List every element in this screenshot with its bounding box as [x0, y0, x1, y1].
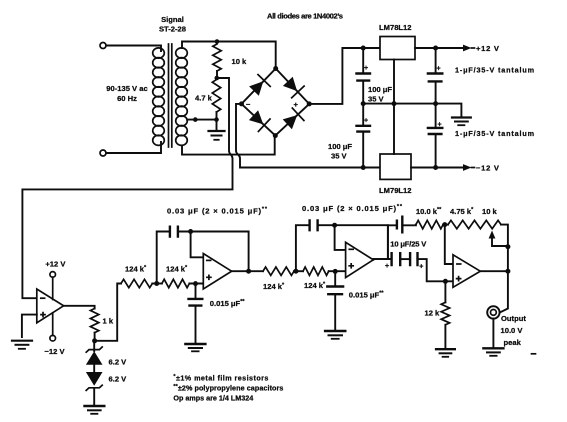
- svg-text:+: +: [364, 65, 368, 72]
- node U4 output: [505, 269, 510, 274]
- resistor 124k #1: [121, 279, 152, 287]
- wire middle ground rail: [363, 104, 461, 117]
- wire node 10.0k to U4 inverting: [445, 225, 453, 264]
- wire secondary top to bridge: [182, 42, 276, 69]
- wire node A: [152, 283, 162, 285]
- pot wiper arrow: [489, 231, 496, 239]
- terminal U1 -supply: [50, 335, 56, 341]
- node stage1 fb: [188, 229, 193, 234]
- wire U3 output: [373, 258, 390, 261]
- svg-text:60 Hz: 60 Hz: [117, 94, 137, 103]
- op-amp U4: [453, 255, 480, 287]
- wire 1k node to 124k chain: [95, 284, 121, 341]
- wire 10k to node: [216, 71, 218, 78]
- arrow -12V: [463, 164, 472, 171]
- transformer T1 core: [169, 44, 172, 147]
- wire jack to ground: [492, 319, 494, 347]
- svg-text:1-μF/35-V tantalum: 1-μF/35-V tantalum: [455, 66, 534, 75]
- svg-text:0.015 μF**: 0.015 μF**: [349, 291, 385, 300]
- transformer T1 secondary winding: [176, 48, 188, 145]
- svg-text:All diodes are 1N4002’s: All diodes are 1N4002’s: [267, 12, 343, 21]
- svg-text:6.2 V: 6.2 V: [109, 358, 128, 367]
- wire to U2 inverting input: [191, 232, 204, 258]
- svg-text:**±2% polypropylene capacitors: **±2% polypropylene capacitors: [173, 384, 283, 393]
- svg-text:−: −: [246, 100, 251, 109]
- label 90-135 V ac 60 Hz: [106, 84, 147, 103]
- wire 4.7k bottom / center tap: [187, 112, 217, 130]
- wire bridge plus to positive rail: [309, 48, 380, 104]
- svg-text:+: +: [385, 263, 389, 270]
- wire to U3 inverting input: [335, 225, 346, 250]
- svg-text:1 k: 1 k: [103, 317, 114, 326]
- svg-text:+12 V: +12 V: [45, 260, 66, 269]
- svg-text:−12 V: −12 V: [44, 347, 65, 356]
- ground at 4.7k: [209, 131, 225, 140]
- svg-text:0.03 μF (2 × 0.015 μF)**: 0.03 μF (2 × 0.015 μF)**: [302, 204, 403, 213]
- wire node B to op-amp U2: [189, 283, 203, 285]
- capacitor 0.015uF stage1: [187, 284, 245, 343]
- diode D1 (left-top, L to T): [249, 75, 270, 96]
- node B stage2: [333, 269, 338, 274]
- svg-text:4.75 k*: 4.75 k*: [450, 207, 474, 216]
- svg-text:1-μF/35-V tantalum: 1-μF/35-V tantalum: [455, 129, 534, 138]
- wire U4 output: [480, 270, 508, 272]
- node mid rail 1uF: [433, 101, 438, 106]
- wire secondary bottom to bridge bottom: [182, 136, 275, 155]
- wire riser op3 output to top row: [388, 225, 396, 259]
- node 10.0k/4.75k: [442, 222, 447, 227]
- svg-text:124 k*: 124 k*: [166, 265, 188, 274]
- svg-text:6.2 V: 6.2 V: [109, 375, 128, 384]
- node mid rail 78L12: [392, 101, 397, 106]
- wire U1 output: [64, 306, 95, 309]
- wire output down to jack: [500, 247, 508, 313]
- svg-text:124 k*: 124 k*: [304, 281, 326, 290]
- node U4 noninverting: [443, 279, 448, 284]
- wire node A stage2: [294, 270, 303, 272]
- wire 79L12 output to -12V: [411, 167, 465, 169]
- label Signal ST-2-28: [159, 15, 186, 34]
- wire pot right end down: [501, 225, 508, 247]
- svg-text:12 k: 12 k: [425, 309, 441, 318]
- svg-text:0.015 μF**: 0.015 μF**: [210, 299, 246, 308]
- node +rail at 100uF: [361, 46, 366, 51]
- svg-text:10 k: 10 k: [232, 57, 248, 66]
- diode D3 (left-bottom, L to B): [249, 110, 270, 131]
- svg-text:*±1% metal film resistors: *±1% metal film resistors: [173, 374, 268, 383]
- node wiper join: [505, 244, 510, 249]
- zener D6 6.2V: [86, 365, 127, 391]
- resistor 12k: [444, 281, 446, 302]
- resistor 4.75k + pot 10k: [448, 220, 501, 228]
- svg-text:90-135 V ac: 90-135 V ac: [106, 84, 147, 93]
- capacitor 0.015uF stage2: [326, 271, 384, 329]
- wire cap to 10.0k: [402, 224, 416, 227]
- wire stage1 feedback right: [178, 232, 249, 272]
- scan speck: [532, 353, 536, 355]
- resistor 124k #3: [263, 267, 294, 275]
- resistor 10k (top): [213, 44, 221, 71]
- capacitor C3 1uF tantalum (top): [427, 48, 444, 104]
- svg-text:100 μF: 100 μF: [368, 85, 392, 94]
- ground at 12k: [436, 349, 455, 357]
- wire 79L12 ground stem: [393, 104, 395, 154]
- wire U1 noninverting input to ground: [22, 315, 37, 337]
- svg-text:+: +: [438, 122, 442, 129]
- terminal U1 +supply: [50, 272, 56, 278]
- node 1k bottom: [92, 338, 97, 343]
- svg-text:10 μF/25 V: 10 μF/25 V: [390, 240, 427, 249]
- ground at U1: [12, 341, 32, 349]
- wire U2 output: [232, 270, 263, 272]
- svg-text:Op amps are 1/4 LM324: Op amps are 1/4 LM324: [173, 394, 253, 403]
- ground at 0.015 stage2: [325, 331, 345, 339]
- svg-text:ST-2-28: ST-2-28: [159, 25, 186, 34]
- terminal primary top: [100, 43, 106, 49]
- terminal primary bottom: [100, 150, 106, 156]
- svg-text:LM79L12: LM79L12: [379, 186, 412, 195]
- wire stage2 feedback right: [318, 225, 388, 259]
- wire primary bottom: [106, 142, 161, 153]
- bridge rectifier outline: [242, 69, 310, 136]
- capacitor 0.03uF stage1: [170, 226, 178, 238]
- ground at 0.015 stage1: [185, 344, 205, 351]
- node bridge right: [307, 101, 312, 106]
- wire coupling to U4 noninverting: [418, 259, 454, 281]
- svg-text:+: +: [364, 118, 368, 125]
- op-amp U1: [37, 289, 64, 323]
- svg-text:Signal: Signal: [161, 15, 184, 24]
- node A stage1: [154, 281, 159, 286]
- zener D5 6.2V: [86, 341, 127, 367]
- resistor 124k #2: [162, 279, 189, 287]
- node bridge left: [239, 101, 244, 106]
- svg-text:LM78L12: LM78L12: [379, 23, 412, 32]
- resistor 4.7k: [212, 80, 220, 113]
- resistor 10.0k: [416, 220, 443, 228]
- diode D2 (top-right, T to R): [283, 77, 304, 98]
- node center tap: [193, 117, 198, 122]
- svg-text:124 k*: 124 k*: [125, 265, 147, 274]
- node U2 output: [246, 269, 251, 274]
- op-amp U2: [203, 254, 231, 290]
- svg-text:0.03 μF (2 × 0.015 μF)**: 0.03 μF (2 × 0.015 μF)**: [167, 207, 268, 216]
- op-amp U3: [346, 242, 374, 277]
- resistor 124k #4: [303, 267, 329, 275]
- svg-text:Output: Output: [501, 314, 526, 323]
- node -rail at 100uF: [361, 165, 366, 170]
- wire zener to ground: [93, 389, 95, 405]
- footnotes: [173, 374, 283, 403]
- transformer T1 primary winding: [153, 48, 165, 145]
- ground mid rail: [452, 118, 471, 126]
- regulator U6 LM79L12: [380, 154, 411, 179]
- capacitor 10uF/25V back-to-back: [385, 240, 427, 271]
- wire 78L12 output to +12V: [415, 47, 465, 49]
- svg-text:+: +: [294, 100, 299, 109]
- node stage2 fb: [332, 223, 337, 228]
- label Output 10.0 V peak: [501, 314, 527, 347]
- node bridge bottom: [273, 133, 278, 138]
- wire stage1 feedback left: [157, 232, 169, 284]
- node 10k/4.7k junction: [215, 76, 220, 81]
- node -rail at 1uF: [433, 165, 438, 170]
- arrow +12V: [463, 45, 472, 52]
- wire bridge minus to negative rail: [236, 104, 380, 168]
- diode D4 (bottom-right, B to R): [283, 108, 304, 129]
- wire node to 4.75k: [443, 224, 448, 226]
- svg-text:10 k: 10 k: [482, 207, 498, 216]
- svg-text:−12 V: −12 V: [476, 163, 500, 172]
- svg-text:+: +: [419, 264, 423, 271]
- output jack: [487, 306, 499, 318]
- svg-text:35 V: 35 V: [331, 152, 348, 161]
- node mid rail 100uF: [361, 101, 366, 106]
- node secondary top / 10k: [215, 39, 220, 44]
- capacitor 0.03uF stage2: [310, 219, 318, 231]
- node 4.7k bottom: [214, 117, 219, 122]
- svg-text:100 μF: 100 μF: [328, 142, 352, 151]
- node +rail at 1uF: [433, 46, 438, 51]
- svg-text:10.0 V: 10.0 V: [501, 326, 524, 335]
- svg-text:+: +: [437, 66, 441, 73]
- svg-text:+12 V: +12 V: [476, 44, 500, 53]
- regulator U5 LM78L12: [380, 37, 415, 60]
- resistor 1k: [90, 309, 98, 333]
- capacitor C1 100uF 35V (top): [355, 48, 392, 104]
- svg-text:124 k*: 124 k*: [263, 282, 285, 291]
- svg-text:35 V: 35 V: [368, 95, 385, 104]
- wire stage2 feedback left: [296, 225, 309, 271]
- capacitor coupling to 10.0k: [397, 216, 402, 234]
- node bridge top: [273, 66, 278, 71]
- wire primary top: [106, 46, 161, 52]
- ground at zeners: [85, 406, 105, 414]
- capacitor C4 1uF tantalum (bottom): [427, 104, 444, 168]
- svg-text:peak: peak: [504, 338, 522, 347]
- node A stage2: [293, 269, 298, 274]
- node B stage1: [193, 281, 198, 286]
- wire tap to op-amp U1 inverting input (long feedback run): [22, 78, 232, 298]
- wire 78L12 ground stem: [393, 60, 395, 104]
- wire node B stage2 to U3: [329, 270, 346, 272]
- capacitor C2 100uF 35V (bottom): [328, 104, 371, 168]
- svg-text:4.7 k: 4.7 k: [195, 94, 213, 103]
- ground at jack: [483, 348, 503, 356]
